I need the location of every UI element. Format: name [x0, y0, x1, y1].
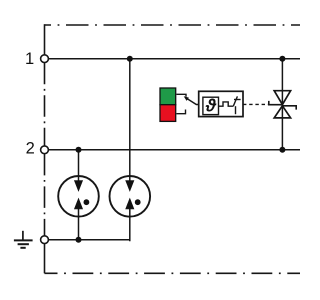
disconnect switch inside box — [233, 96, 237, 106]
TVS cathode bar right with hook — [282, 106, 296, 110]
enclosure border bottom (dash-dot) — [45, 272, 301, 274]
thermal sensor inner box — [203, 97, 219, 114]
switch blade with arrowhead — [186, 98, 199, 105]
wire gas tube G2 riser (line1 down to G2 top, crossing line 2) — [129, 59, 131, 181]
enclosure border left lower solid segment — [44, 244, 46, 273]
status indicator red field — [160, 105, 176, 122]
enclosure border left upper solid segment — [44, 24, 46, 54]
wire earth horizontal — [48, 239, 129, 241]
TVS cathode bar left with hook — [269, 101, 283, 105]
wire gas tube G1 bottom stub — [78, 209, 80, 240]
wire gas tube G2 bottom to earth wire corner — [128, 209, 131, 241]
svg-text:2: 2 — [26, 140, 35, 158]
TVS suppressor diode upper triangle — [274, 91, 290, 105]
svg-text:1: 1 — [25, 50, 34, 68]
junction line1/TVS branch — [279, 56, 285, 62]
enclosure border left dash-dot segment between terminal 2 and earth terminal — [44, 154, 46, 236]
ground symbol — [14, 231, 33, 248]
switch linkage upper contact — [176, 94, 186, 97]
mechanical linkage dashed line to TVS — [243, 103, 269, 105]
junction line2/TVS branch — [279, 147, 285, 153]
thermal disconnector box — [199, 91, 243, 116]
pulse waveform — [219, 102, 234, 106]
gas discharge tube G2 — [110, 176, 151, 217]
enclosure border left dash-dot segment between terminal 1 and terminal 2 — [44, 63, 46, 146]
wire gas tube G1 top stub — [78, 150, 80, 181]
wire TVS branch vertical — [281, 59, 283, 150]
junction earth wire/G1 stub — [76, 237, 82, 243]
earth terminal — [41, 236, 49, 244]
enclosure border top (dash-dot) — [45, 24, 301, 26]
junction line2/G1 stub — [76, 147, 82, 153]
wire line 2 horizontal — [48, 149, 300, 151]
TVS suppressor diode lower triangle — [274, 106, 290, 118]
svg-text:ϑ: ϑ — [205, 95, 217, 115]
terminal 1 — [41, 55, 49, 63]
terminal 2 — [41, 146, 49, 154]
gas discharge tube G1 — [58, 176, 99, 217]
wire line 1 horizontal — [48, 58, 300, 60]
junction line1/G2 riser — [127, 56, 133, 62]
switch linkage lower contact — [176, 110, 185, 114]
status indicator green field — [160, 88, 176, 105]
